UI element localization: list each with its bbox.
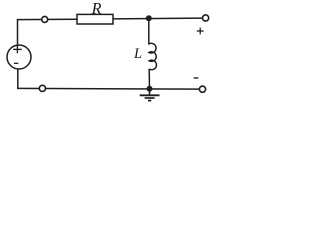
wire left vertical (source top lead) <box>17 20 19 46</box>
terminal - (open circle) <box>199 86 205 92</box>
node (open circle on bottom wire) <box>39 85 45 91</box>
wire top from resistor to + terminal <box>113 17 203 20</box>
junction bottom (node) <box>147 86 153 92</box>
wire top from source corner to resistor <box>18 18 78 20</box>
resistor R (box) <box>77 14 113 24</box>
label + <box>197 28 204 35</box>
svg-text:R: R <box>91 1 102 18</box>
wire left vertical (source bottom lead) <box>17 69 19 89</box>
ground <box>140 89 160 101</box>
terminal + (open circle) <box>203 15 209 21</box>
wire inductor branch top <box>148 18 150 44</box>
junction top (node) <box>146 15 152 21</box>
wire inductor branch bottom <box>148 69 150 88</box>
wire bottom from source corner to - terminal <box>18 87 200 90</box>
voltage source V1 <box>7 45 31 69</box>
label - <box>194 77 199 79</box>
inductor L (coil) <box>149 43 157 69</box>
node (open circle on top wire) <box>42 16 48 22</box>
svg-text:L: L <box>133 46 142 62</box>
